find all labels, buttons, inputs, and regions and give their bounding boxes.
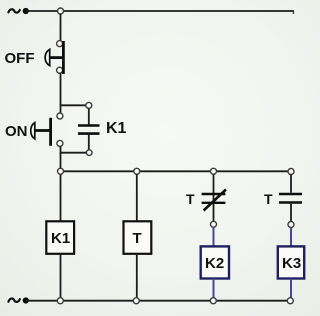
wire ON to middle bus — [60, 146, 62, 171]
node middle bus x=213 — [211, 168, 217, 174]
pushbutton OFF (NC) — [45, 41, 63, 74]
wire K2 coil to bottom rail (blue) — [213, 279, 215, 301]
contact T (K3 branch) — [279, 194, 302, 203]
wire OFF to ON — [60, 73, 62, 116]
node bottom rail x=136 — [133, 298, 139, 304]
wire T coil to bottom rail — [136, 254, 138, 301]
wire bottom rail — [26, 300, 291, 302]
contact K1 (NO auxiliary) — [78, 126, 100, 134]
node bottom rail right end — [287, 298, 293, 304]
wire bus to K1 coil — [60, 174, 62, 221]
coil T — [124, 221, 152, 254]
node K3 branch — [288, 222, 294, 228]
wire bus to T contact (K3 branch) — [290, 175, 292, 193]
svg-text:K3: K3 — [282, 255, 301, 272]
node K1 branch bottom — [86, 150, 92, 156]
wire branch to K1 contact (top) — [61, 104, 89, 106]
terminal dot bottom — [23, 297, 29, 303]
svg-text:T: T — [186, 191, 195, 207]
svg-text:T: T — [264, 191, 273, 207]
AC source symbol bottom (~) — [8, 299, 19, 302]
node middle bus x=60 — [58, 168, 64, 174]
svg-text:K2: K2 — [205, 255, 224, 272]
wire node to K3 coil (blue) — [290, 228, 292, 247]
svg-text:K1: K1 — [51, 230, 70, 247]
AC source symbol top (~) — [8, 9, 19, 12]
node K2 branch — [211, 221, 217, 227]
wire K3 coil to bottom rail (blue) — [290, 279, 292, 301]
wire K1 coil to bottom rail — [60, 254, 62, 301]
wire bus to T coil — [136, 174, 138, 221]
wire branch from K1 contact (bottom) — [61, 152, 87, 154]
svg-text:K1: K1 — [106, 120, 127, 137]
wire bus to T timed contact (K2 branch) — [213, 174, 215, 221]
wire top rail — [26, 10, 294, 12]
svg-text:ON: ON — [5, 123, 28, 140]
svg-text:OFF: OFF — [5, 50, 35, 67]
node bottom rail x=213 — [210, 298, 216, 304]
coil K1 — [46, 221, 74, 254]
node middle bus x=137 — [134, 168, 140, 174]
node K1 branch top — [86, 102, 92, 108]
wire middle bus — [61, 170, 292, 172]
coil K2 — [201, 246, 229, 278]
terminal dot top — [23, 8, 29, 14]
svg-text:T: T — [133, 230, 142, 247]
wire node to K2 coil (blue) — [213, 227, 215, 246]
node middle bus right end — [288, 169, 294, 175]
wire K1 contact to bottom node — [88, 135, 90, 150]
coil K3 — [278, 246, 304, 278]
node bottom rail x=60 — [57, 298, 63, 304]
wire T contact to node (K3 branch) — [290, 204, 292, 222]
pushbutton ON (NO) — [31, 113, 63, 146]
node top rail junction — [58, 8, 64, 14]
wire node to K1 contact — [88, 108, 90, 125]
wire top node to OFF button — [60, 14, 62, 41]
contact T timed (K2 branch) — [202, 190, 226, 211]
